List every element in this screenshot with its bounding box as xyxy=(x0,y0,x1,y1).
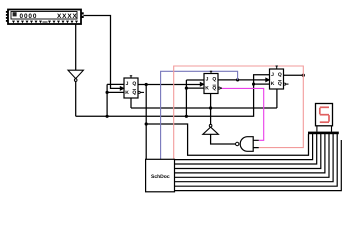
wire Q1 down to decoder box xyxy=(145,85,147,160)
wire R net xyxy=(131,89,277,108)
node FF2 JK-net xyxy=(185,115,188,118)
wire instrument bottom to NOT U1 xyxy=(75,24,77,70)
node Q3 xyxy=(302,74,305,77)
wire Q1 branch to display line xyxy=(146,124,308,155)
7-seg display U7 xyxy=(308,104,339,135)
svg-text:K: K xyxy=(125,90,129,96)
wire clock: instrument right to FF1 CLK xyxy=(84,16,122,89)
node R net xyxy=(209,106,212,109)
instrument right pins xyxy=(82,12,84,14)
wire segment e xyxy=(175,134,325,173)
magenta net Q2bar to NAND xyxy=(221,88,264,140)
NOT gate U2 (pointing up) xyxy=(203,124,219,134)
instrument left pins xyxy=(6,11,8,13)
wire FF1 J/K tie xyxy=(107,84,124,116)
svg-text:0000: 0000 xyxy=(20,13,38,20)
wire segment h xyxy=(175,134,338,186)
instrument pin serrations xyxy=(12,21,78,24)
JK flip-flop U6 (FF3) xyxy=(265,66,288,89)
JK flip-flop U5 (FF2) xyxy=(200,71,222,93)
node FF2 K xyxy=(185,87,188,90)
wire Q3 to red net xyxy=(284,74,304,76)
wire segment f xyxy=(175,134,330,177)
node FF3 K xyxy=(252,83,255,86)
red net Q3 to decoder and NAND xyxy=(174,66,304,159)
blue net Q2 to decoder xyxy=(161,71,238,159)
node Q1 branch xyxy=(145,122,148,125)
wire Q1 to FF2 clock xyxy=(138,84,201,86)
svg-text:Q: Q xyxy=(132,90,136,96)
wire NOT U2 in from NAND out xyxy=(211,134,236,144)
bus wires decoder to display xyxy=(175,134,342,191)
svg-text:Q: Q xyxy=(212,77,216,83)
node Q2/blue xyxy=(236,78,239,81)
node FF1 K xyxy=(106,91,109,94)
svg-text:J: J xyxy=(206,76,209,82)
svg-text:J: J xyxy=(271,72,274,78)
svg-text:SchDoc: SchDoc xyxy=(151,174,170,180)
node FF1 JK-net xyxy=(106,115,109,118)
digit 5 xyxy=(320,107,329,122)
node Q1 xyxy=(145,83,148,86)
wire JK net long line xyxy=(76,75,270,117)
JK flip-flop U4 (FF1) xyxy=(120,76,144,98)
NAND gate U3 (facing left) xyxy=(236,137,259,152)
wire FF2 J/K tie xyxy=(186,80,204,116)
svg-text:Q: Q xyxy=(278,72,282,78)
wire FF3 K xyxy=(254,83,270,85)
wire segment i xyxy=(175,140,342,191)
svg-text:J: J xyxy=(126,81,129,87)
wire Q2 to FF3 clock xyxy=(218,79,267,81)
decoder box X1 xyxy=(146,159,175,192)
svg-text:Q: Q xyxy=(212,86,216,92)
svg-text:XXXX: XXXX xyxy=(57,13,78,20)
svg-text:Q: Q xyxy=(278,81,282,87)
wire segment d xyxy=(175,134,321,169)
wire NOT U1 out down to JK net line xyxy=(75,81,77,116)
svg-text:K: K xyxy=(205,85,209,91)
NOT gate U1 (pointing down) xyxy=(68,70,83,81)
svg-text:K: K xyxy=(271,81,275,87)
svg-text:Q: Q xyxy=(132,81,136,87)
wire segment c xyxy=(175,134,317,164)
wire segment g xyxy=(175,134,334,182)
wire FF2 R to NOT U2 xyxy=(210,94,212,125)
instrument XWG1 (word generator) xyxy=(8,10,81,25)
wire segment b xyxy=(175,134,313,160)
